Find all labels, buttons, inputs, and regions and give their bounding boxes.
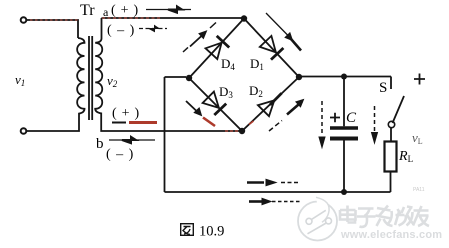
svg-text:www.elecfans.com: www.elecfans.com bbox=[340, 229, 442, 241]
dashed arrow left of C bbox=[319, 101, 325, 148]
bridge edge T-L bbox=[189, 19, 244, 79]
label + of C bbox=[330, 113, 340, 123]
junction dot C bottom bbox=[341, 189, 347, 195]
bridge node left bbox=[186, 75, 192, 81]
arrow solid (+) top bbox=[146, 6, 191, 12]
wire primary bottom bbox=[27, 113, 80, 131]
svg-text:10.9: 10.9 bbox=[199, 224, 224, 240]
capacitor plates bbox=[330, 126, 358, 129]
watermark logo bbox=[298, 197, 337, 241]
watermark text bbox=[340, 206, 429, 227]
label + output bbox=[414, 74, 425, 85]
transformer primary winding bbox=[77, 38, 84, 114]
svg-text:(+): (+) bbox=[112, 106, 144, 121]
arrow outside D1 bbox=[266, 13, 301, 51]
arrow outside D4 bbox=[183, 23, 216, 53]
arrow outside D3 bbox=[186, 101, 202, 116]
wire RL bottom bbox=[390, 172, 392, 193]
resistor RL bbox=[385, 142, 397, 172]
transformer core bbox=[89, 36, 92, 120]
capacitor C branch top bbox=[343, 77, 345, 127]
vertical wire left bbox=[164, 77, 166, 192]
bottom rail bbox=[165, 191, 391, 193]
red dot near bottom node bbox=[249, 121, 254, 125]
red tint on wire bbox=[30, 19, 78, 21]
switch lever bbox=[393, 96, 405, 123]
arrow dashed (-) top bbox=[139, 26, 167, 32]
svg-text:Tr: Tr bbox=[80, 2, 95, 19]
junction dot C top bbox=[341, 74, 347, 80]
arrow below rail bbox=[249, 198, 300, 204]
terminal top-left bbox=[21, 17, 27, 23]
switch S stub bbox=[390, 77, 392, 90]
diode D4 bbox=[206, 36, 230, 59]
wire switch to RL bbox=[390, 128, 392, 142]
transformer secondary winding bbox=[95, 18, 102, 113]
diode D2 bbox=[258, 93, 282, 116]
wire primary top bbox=[27, 20, 79, 38]
svg-text:C: C bbox=[346, 110, 357, 126]
bridge node bottom bbox=[239, 128, 245, 134]
arrow solid b bbox=[109, 137, 155, 143]
arrow above rail bbox=[247, 179, 299, 185]
red smudge D3 arrow bbox=[203, 118, 215, 127]
red tint on a wire bbox=[102, 17, 160, 19]
svg-text:a: a bbox=[103, 5, 109, 19]
svg-text:(–): (–) bbox=[106, 147, 139, 162]
wire secondary bottom (b) bbox=[101, 113, 241, 132]
svg-text:(–): (–) bbox=[107, 23, 140, 38]
red tint b-wire near node bbox=[225, 130, 238, 132]
caption 图 bbox=[181, 224, 194, 236]
diode D3 bbox=[203, 92, 227, 115]
arrow outside D2 bbox=[269, 100, 304, 132]
bridge edge L-B bbox=[189, 78, 242, 131]
capacitor C branch bottom bbox=[343, 141, 345, 193]
bridge edge T-R bbox=[244, 19, 299, 78]
dashed arrow between C and RL bbox=[372, 106, 378, 143]
svg-text:S: S bbox=[379, 80, 387, 96]
diode D1 bbox=[260, 36, 284, 60]
svg-text:(+): (+) bbox=[111, 3, 143, 18]
bridge node top bbox=[241, 15, 247, 21]
arrow red (+) bottom bbox=[112, 122, 126, 124]
bridge node right bbox=[296, 74, 302, 80]
svg-text:PA11: PA11 bbox=[413, 187, 425, 193]
wire left node to vertical bbox=[165, 76, 187, 78]
switch contact circle bbox=[388, 121, 394, 127]
svg-text:b: b bbox=[96, 136, 104, 152]
terminal bottom-left bbox=[21, 128, 27, 134]
bridge edge B-R bbox=[242, 77, 299, 131]
wire a to bridge top bbox=[102, 17, 244, 19]
wire right node to switch bbox=[299, 76, 391, 78]
